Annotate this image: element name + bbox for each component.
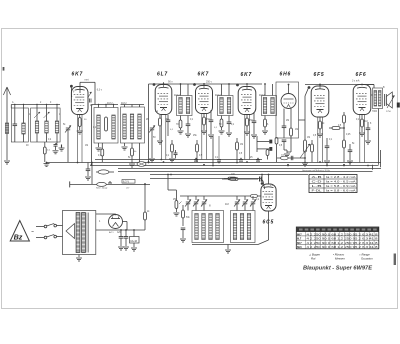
wire right feed — [378, 109, 380, 165]
trimmer C5 — [150, 127, 154, 129]
wire input top rail b — [10, 105, 12, 109]
wire transformer top — [362, 84, 374, 86]
svg-text:6K7: 6K7 — [198, 72, 210, 78]
svg-text:2M: 2M — [286, 120, 289, 122]
input box 2 — [31, 108, 60, 142]
capacitor C6 V2 — [167, 115, 169, 120]
ground V4 cathode — [244, 131, 250, 133]
resistor R30 — [275, 138, 278, 145]
svg-text:Ia = 5.8 - 0.9 mA: Ia = 5.8 - 0.9 mA — [326, 184, 356, 188]
svg-text:AZ 1: AZ 1 — [109, 231, 114, 234]
bus wire 2 — [47, 162, 382, 164]
resistor R6 cathode V2 — [159, 115, 161, 118]
tube V6 6F5 — [311, 86, 329, 117]
svg-text:250 v: 250 v — [206, 81, 213, 84]
svg-text:F-DL: F-DL — [312, 189, 323, 193]
tube V9 6C5 — [261, 184, 276, 211]
wire transformer bottom gnd — [78, 255, 80, 258]
capacitor C36 blob — [269, 147, 272, 151]
svg-text:Ia = 4.0 - 6.5 mA: Ia = 4.0 - 6.5 mA — [326, 180, 356, 184]
wire osc feed — [167, 175, 169, 191]
IF transformer T_IF2 box — [218, 96, 234, 116]
capacitor C26 osc — [181, 227, 186, 229]
coil L13 — [220, 98, 223, 114]
transformer cone — [66, 224, 75, 239]
trimmer C20 — [186, 201, 190, 203]
svg-text:~: ~ — [31, 230, 34, 236]
resistor R14 — [264, 116, 266, 120]
svg-text:met: met — [85, 79, 89, 82]
svg-text:4 2 250 90 0 68 1.2 250 95 2 6: 4 2 250 90 0 68 1.2 250 95 2 6.3 41 8 — [307, 241, 379, 245]
resistor R29 audio — [280, 156, 288, 160]
IF transformer T_IF3 box — [262, 96, 277, 116]
svg-text:3 x mA: 3 x mA — [352, 80, 360, 83]
ground V6 cathode — [317, 133, 323, 135]
output transformer T2 box — [373, 88, 383, 109]
node bus e — [319, 161, 321, 163]
grid-cap V1 — [70, 85, 73, 88]
wire L5 drop — [56, 142, 58, 144]
coil L15 — [263, 98, 266, 114]
svg-text:6,3 v: 6,3 v — [97, 89, 103, 92]
ground R5 — [129, 163, 135, 165]
node bus h — [91, 164, 93, 166]
svg-text:16+16: 16+16 — [130, 240, 137, 243]
coil L14 — [227, 98, 230, 114]
transformer core — [86, 213, 88, 253]
capacitor C35 — [175, 150, 177, 153]
coil L18 secondary — [378, 91, 381, 107]
capacitor C32 hang — [217, 159, 221, 161]
wire IF2 top — [221, 84, 223, 96]
ground C16 — [85, 176, 91, 178]
bias data table — [309, 175, 357, 193]
tube V1 6K7 — [71, 87, 88, 115]
ground V7 cathode — [359, 132, 365, 134]
capacitor C29 audio — [290, 156, 292, 160]
resistor R32 grid stopper — [250, 194, 258, 197]
power transformer T1 box — [63, 211, 96, 255]
node bus g — [148, 161, 150, 163]
filter box 2b — [121, 107, 145, 143]
resistor R3 — [105, 117, 108, 131]
grid-cap circle V4 — [236, 84, 239, 87]
trimmer C21 — [194, 201, 198, 203]
capacitor C15 — [367, 122, 369, 128]
wire V3 screen drop — [212, 136, 214, 165]
capacitor C18 electrolytic — [125, 230, 127, 237]
ground C19 — [131, 247, 137, 249]
wire det link 2 — [257, 148, 269, 150]
svg-text:0,25: 0,25 — [346, 134, 351, 136]
wire S2 to transformer — [56, 236, 62, 238]
wire V9 plate — [268, 175, 270, 185]
wire trimmer to box a — [187, 204, 189, 211]
svg-text:6H6: 6H6 — [280, 72, 292, 78]
svg-text:7000: 7000 — [372, 111, 378, 113]
ground oscillator — [225, 249, 231, 251]
wire V2 heater legs — [160, 115, 162, 160]
coil L25 — [233, 214, 236, 240]
resistor R22 on bus — [98, 170, 109, 174]
svg-text:418,2: 418,2 — [215, 95, 221, 97]
resistor R15 — [290, 128, 293, 136]
svg-text:1M: 1M — [85, 145, 88, 147]
wire trimmer C4 drop — [67, 130, 69, 162]
node bus d — [287, 164, 289, 166]
resistor R26 — [175, 201, 178, 209]
wire V5 top — [288, 85, 290, 94]
svg-text:6L7: 6L7 — [157, 72, 168, 78]
svg-text:418,2: 418,2 — [107, 103, 113, 105]
wire V9 grid link — [263, 186, 266, 189]
trimmer C22 — [202, 201, 206, 203]
ground C14 — [347, 160, 353, 162]
svg-text:Netz t. Ausgl: Netz t. Ausgl — [96, 187, 108, 190]
resistor R20 — [343, 128, 345, 140]
grid-cap circle V2 — [153, 83, 156, 86]
tube V4 6K7 — [238, 87, 256, 115]
svg-text:6,3 V: 6,3 V — [123, 180, 129, 184]
trimmer arrow T2 — [44, 112, 50, 118]
switch S2 — [44, 236, 47, 239]
svg-text:1M: 1M — [240, 144, 243, 146]
wire V7 plate top — [361, 84, 363, 86]
coil L10 — [138, 114, 141, 139]
ground C13 — [324, 160, 330, 162]
trimmer C23 — [235, 201, 239, 203]
wire L10 drop — [139, 143, 141, 162]
coil L11 — [179, 98, 182, 114]
wire right feed2 — [380, 150, 382, 167]
resistor R24 — [97, 182, 107, 186]
coil L4 — [46, 108, 48, 121]
ground L8 — [124, 143, 126, 146]
wire V6 heater legs — [317, 117, 319, 163]
coil L16 — [271, 98, 274, 114]
ground C2 — [53, 150, 59, 152]
svg-text:Blaupunkt - Super 6W97E: Blaupunkt - Super 6W97E — [303, 266, 373, 272]
wire det link 1 — [257, 141, 269, 143]
node input rail dots — [14, 104, 15, 105]
wire trimmer to box b — [236, 204, 238, 211]
capacitor C31 hang — [194, 159, 198, 161]
IF transformer T_IF1 box — [177, 96, 193, 116]
svg-text:2M: 2M — [146, 119, 149, 121]
node top line at 6K7c — [246, 83, 248, 85]
connector label plate — [122, 180, 135, 184]
svg-text:Bz: Bz — [14, 233, 23, 242]
wire trimmer drops b — [236, 196, 238, 200]
wire x92 drop — [91, 162, 93, 184]
wire V4 heater legs — [244, 115, 246, 160]
resistor R28 grid — [230, 178, 238, 181]
svg-text:418,2: 418,2 — [174, 95, 180, 97]
mains triangle symbol — [10, 221, 29, 242]
capacitor C30 blob — [269, 140, 272, 144]
wire V1 grid stub — [70, 88, 72, 95]
svg-text:1M: 1M — [295, 129, 298, 131]
node top line at 6L7 — [163, 83, 165, 85]
coil L2 — [23, 108, 25, 123]
resistor R16 cathode V6 — [319, 117, 321, 121]
svg-text:418,2: 418,2 — [259, 95, 265, 97]
capacitor C28 on line — [109, 181, 111, 183]
resistor R18 coupling — [332, 127, 340, 130]
wire V9 cathode — [268, 211, 270, 240]
resistor R23 on heater wire — [228, 177, 236, 180]
wire V2 vertical feed — [148, 84, 150, 162]
wire hv rail — [96, 229, 145, 231]
node bus b — [203, 164, 205, 166]
coil L24 — [216, 214, 219, 240]
filter box 2a — [94, 108, 118, 144]
oscillator coil box 2 — [231, 211, 256, 243]
wire input top rail a — [11, 104, 60, 106]
tube V5 6H6 — [281, 94, 296, 109]
bus wire 3 — [90, 165, 379, 167]
coil L22 — [202, 214, 205, 240]
trimmer C3 grid2 — [88, 92, 92, 98]
oscillator coil box 1 — [192, 211, 224, 243]
ground antenna — [4, 160, 10, 162]
wire V1 topcap — [79, 87, 81, 93]
coil L12 — [186, 98, 189, 114]
svg-text:4 2 250 90 0 68 1.2 250 95 2 6: 4 2 250 90 0 68 1.2 250 95 2 6.3 41 8 — [307, 245, 379, 249]
trimmer arrow T1 — [34, 112, 40, 118]
wire bank2a top — [92, 104, 119, 106]
coil L7 — [112, 115, 115, 139]
wire x372 stub — [372, 165, 374, 170]
bus wire 7 — [150, 178, 262, 180]
resistor R17 — [311, 140, 313, 144]
svg-text:Gemessen mit Multavi g. 20 H: Gemessen mit Multavi g. 20 Hz — [302, 169, 330, 172]
svg-text:2750: 2750 — [386, 111, 392, 113]
wire rail to 6C5 — [258, 195, 261, 197]
ground V1 cathode — [77, 130, 83, 132]
wire IF1 top — [180, 84, 182, 96]
trimmer C24 — [243, 201, 247, 203]
svg-text:A-B: A-B — [312, 175, 322, 179]
bus junction dots — [77, 162, 79, 164]
resistor R31 — [267, 148, 269, 151]
coil L3 — [36, 108, 38, 121]
capacitor C1 input — [14, 108, 16, 124]
svg-text:6K7: 6K7 — [72, 72, 84, 78]
svg-text:L-B: L-B — [312, 184, 322, 188]
ground IF1 a — [178, 130, 184, 132]
ground detector — [284, 153, 290, 155]
svg-text:6L7: 6L7 — [297, 238, 302, 241]
wire rectifier out — [123, 221, 128, 223]
registration mark right edge lower — [394, 254, 396, 266]
switch S1 — [44, 225, 47, 228]
wire long vertical x91 — [91, 105, 93, 165]
capacitor C8 V3 — [210, 110, 212, 120]
resistor R4 — [101, 143, 103, 149]
node bus f — [343, 164, 345, 166]
tube V7 6F6 — [353, 85, 371, 115]
capacitor C13 — [326, 138, 328, 146]
wire osc bottom rail — [192, 244, 258, 246]
wire V6 plate — [319, 85, 321, 87]
coil L21 — [195, 214, 198, 240]
wire V7 heater legs — [359, 115, 361, 163]
coil L17 primary — [374, 91, 377, 107]
svg-text:6K7: 6K7 — [297, 233, 302, 236]
resistor R5 — [131, 143, 133, 148]
antenna A1 — [6, 93, 8, 160]
resistor R10 V3 — [196, 140, 198, 144]
wire bank2b top — [121, 104, 145, 106]
svg-text:50k: 50k — [281, 155, 284, 157]
input box 1 — [11, 108, 28, 142]
grid-cap circle V6 — [308, 86, 311, 89]
wire x257 stub — [256, 136, 258, 152]
coil L20 secondary winding — [82, 213, 86, 253]
wire transformer to rectifier — [96, 213, 116, 215]
node bus a — [163, 161, 165, 163]
coil L8 — [123, 114, 126, 139]
svg-text:Occasion: Occasion — [361, 257, 373, 261]
bus wire 6 — [150, 174, 308, 176]
potentiometer P1 — [304, 120, 306, 140]
svg-text:Ia = 2.8 - 4.2 mA: Ia = 2.8 - 4.2 mA — [326, 175, 356, 179]
coil L19 primary winding — [76, 213, 80, 253]
ground transformer — [76, 257, 82, 259]
resistor R12 — [236, 138, 238, 142]
capacitor C14 — [349, 144, 351, 150]
ground C17 — [118, 246, 124, 248]
ground IF1 b — [185, 133, 191, 135]
grid-cap dot V9 — [261, 182, 264, 185]
wire mains b — [36, 237, 44, 239]
svg-text:6F5: 6F5 — [314, 72, 325, 78]
ground V2 — [157, 140, 163, 142]
wire top anode line right — [305, 84, 374, 86]
ground C15 — [365, 140, 371, 142]
resistor R1 — [44, 142, 46, 147]
ground V3 cathode — [201, 130, 207, 132]
wire trimmer drops a — [187, 196, 189, 200]
dial lamp LP1 — [137, 162, 146, 167]
wire audio line — [277, 157, 302, 159]
wire V1 heater legs — [77, 115, 79, 163]
ground C8 — [208, 134, 214, 136]
wire mains a — [36, 226, 44, 228]
coil L5 — [56, 108, 58, 121]
svg-text:6F6: 6F6 — [356, 72, 367, 78]
svg-text:Messen: Messen — [335, 257, 345, 261]
ground IF2 b — [226, 132, 232, 134]
ground R7 — [169, 158, 175, 160]
capacitor block C19 16+16 — [130, 237, 140, 244]
wire V7 anode out — [371, 94, 373, 96]
resistor R7 — [171, 140, 173, 144]
resistor R19 — [343, 112, 345, 115]
wire trimmer C5 drop — [151, 130, 153, 158]
capacitor C27 grid — [253, 178, 258, 180]
tube V3 6K7 — [196, 86, 213, 114]
registration tick left edge — [3, 67, 5, 71]
node top line at 6K7b — [203, 83, 205, 85]
ground IF2 a — [219, 130, 225, 132]
resistor R25 dropper — [144, 184, 146, 212]
node bus c — [246, 161, 248, 163]
capacitor C33 hang — [239, 159, 243, 161]
registration mark right edge top — [397, 103, 400, 108]
wire V1 anode to bank2 — [80, 81, 95, 83]
coil L23 — [209, 214, 212, 240]
wire V3 heater legs — [201, 114, 203, 160]
capacitor C34 hang — [256, 159, 260, 161]
coil L1 antenna — [5, 123, 8, 134]
svg-text:418,2: 418,2 — [121, 103, 127, 105]
wire IF3 top — [264, 84, 266, 96]
bus wire 4 — [118, 168, 381, 170]
trimmer C4 — [66, 127, 70, 129]
speaker field arrow — [387, 96, 395, 109]
capacitor C7 — [187, 116, 189, 125]
svg-text:4 2 250 90 0 68 1.2 250 95 2 6: 4 2 250 90 0 68 1.2 250 95 2 6.3 41 8 — [307, 232, 379, 236]
trimmer C25 — [251, 201, 255, 203]
bus wire 1 — [95, 159, 262, 161]
capacitor C17 electrolytic — [120, 230, 122, 237]
capacitor C10 V4 — [253, 112, 255, 121]
capacitor C16 — [87, 163, 89, 170]
ground IF3 — [262, 130, 268, 132]
svg-text:6K7: 6K7 — [297, 242, 302, 245]
coil L27 — [247, 214, 250, 240]
detector shield box — [276, 82, 299, 138]
capacitor C11 — [283, 109, 285, 127]
resistor R27 osc — [182, 205, 184, 210]
bus wire 5 — [118, 171, 373, 173]
wire y184 horizontal — [70, 183, 150, 185]
ground C10 — [251, 134, 257, 136]
voltage table — [296, 227, 379, 249]
wire pot to grid cap — [304, 96, 306, 120]
resistor R13 cathode V4 — [246, 115, 248, 119]
svg-text:C-D: C-D — [312, 180, 322, 184]
svg-text:4 2 250 90 0 68 1.2 250 95 2 6: 4 2 250 90 0 68 1.2 250 95 2 6.3 41 8 — [307, 237, 379, 241]
wire osc top rail — [180, 195, 250, 197]
svg-text:90 v: 90 v — [168, 81, 173, 84]
wire top anode line mid — [149, 83, 263, 85]
coil L9 — [130, 114, 133, 139]
svg-text:1M: 1M — [307, 137, 310, 139]
ground pot — [302, 162, 308, 164]
wire V7 top lead — [361, 84, 363, 86]
resistor R8 — [180, 116, 182, 121]
wire S1 to transformer — [56, 225, 62, 227]
coil L26 — [240, 214, 243, 240]
resistor R9 cathode V3 — [203, 114, 205, 118]
ground bus left — [44, 163, 50, 165]
svg-text:Rot: Rot — [311, 257, 316, 261]
svg-text:6H6: 6H6 — [297, 246, 302, 249]
svg-text:Ia = 0.8 - 6.6 mA: Ia = 0.8 - 6.6 mA — [326, 189, 356, 193]
resistor R21 cathode V7 — [361, 115, 363, 120]
resistor R11 — [221, 116, 223, 120]
wire osc gnd stub — [227, 245, 229, 250]
wire detector out — [299, 119, 306, 121]
grid-cap circle V3 — [193, 83, 196, 86]
capacitor C12 — [282, 139, 287, 141]
ground bank2a — [98, 143, 100, 147]
ground osc left — [180, 238, 186, 240]
resistor R2 cathode V1 — [79, 115, 81, 118]
